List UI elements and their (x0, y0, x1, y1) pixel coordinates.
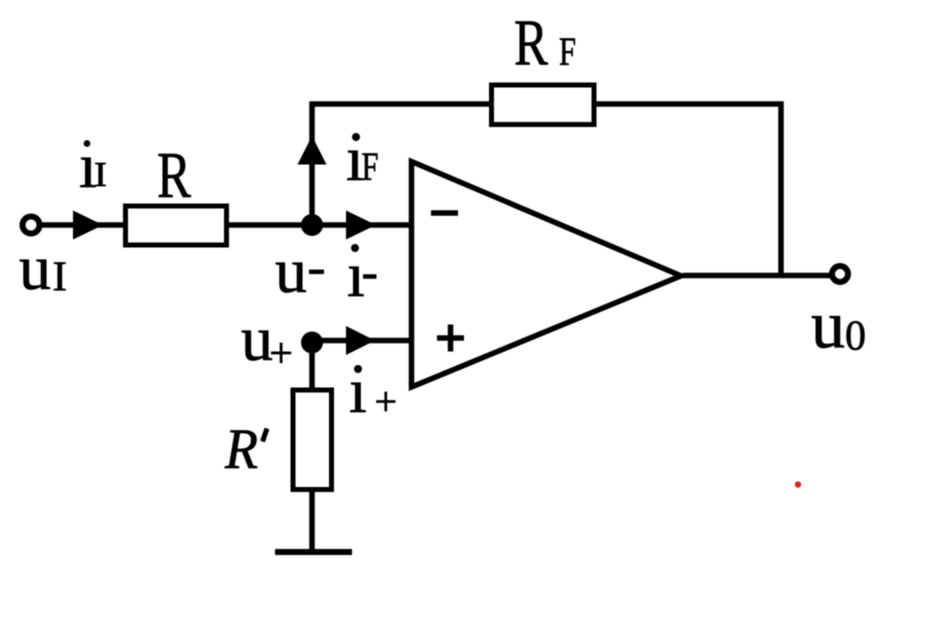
wire node u+ to non-inverting input (312, 338, 409, 344)
label u0 output voltage (811, 287, 866, 363)
resistor RF (492, 85, 595, 125)
svg-text:+: + (375, 379, 398, 424)
label uI (19, 232, 67, 303)
svg-text:R: R (224, 418, 258, 481)
svg-text:u: u (241, 303, 273, 374)
svg-text:0: 0 (845, 314, 866, 360)
svg-text:+: + (269, 331, 293, 377)
svg-text:I: I (94, 155, 107, 194)
wire resistor R' to ground (309, 492, 315, 552)
label u- node voltage (275, 235, 324, 306)
svg-text:I: I (53, 255, 68, 301)
arrow i- toward inverting input (346, 211, 376, 240)
node u- junction dot (301, 214, 323, 236)
wire resistor R to op-amp inverting input (229, 222, 409, 228)
wire node u- up to feedback branch (309, 102, 315, 226)
wire input to resistor R (40, 222, 125, 228)
label u+ node voltage (241, 303, 293, 377)
label RF (514, 7, 576, 80)
input terminal circle (23, 217, 40, 234)
node u+ junction dot (301, 332, 323, 354)
wire top feedback right segment (596, 101, 784, 107)
resistor R' (293, 390, 332, 490)
svg-text:F: F (362, 144, 379, 189)
label iF current with dot (346, 123, 379, 194)
label iI current with dot (79, 130, 107, 201)
label R' (224, 418, 267, 481)
red dot mark (795, 481, 801, 487)
resistor R (126, 206, 227, 245)
svg-text:ı: ı (349, 355, 367, 426)
output terminal circle (832, 266, 848, 282)
wire feedback vertical down to output (778, 102, 784, 276)
wire node u+ down to resistor R' (309, 343, 315, 389)
svg-text:F: F (559, 29, 576, 74)
minus sign inside op-amp (431, 210, 458, 216)
arrow iI on input wire (73, 211, 103, 240)
svg-text:ı: ı (347, 239, 365, 310)
wire top feedback left segment (310, 101, 490, 107)
label i- current with dot (347, 239, 377, 310)
svg-text:u: u (275, 235, 307, 306)
plus sign inside op-amp (437, 325, 464, 352)
arrow i+ toward non-inverting input (346, 326, 375, 355)
arrow iF upward (298, 136, 327, 165)
ground (275, 549, 352, 555)
op-amp U1 triangle (412, 162, 682, 388)
svg-text:R: R (157, 139, 191, 212)
svg-text:R: R (514, 7, 548, 80)
wire op-amp output to terminal (683, 273, 830, 279)
svg-text:u: u (19, 232, 51, 303)
label i+ current with dot (349, 355, 397, 426)
svg-text:u: u (811, 287, 845, 363)
